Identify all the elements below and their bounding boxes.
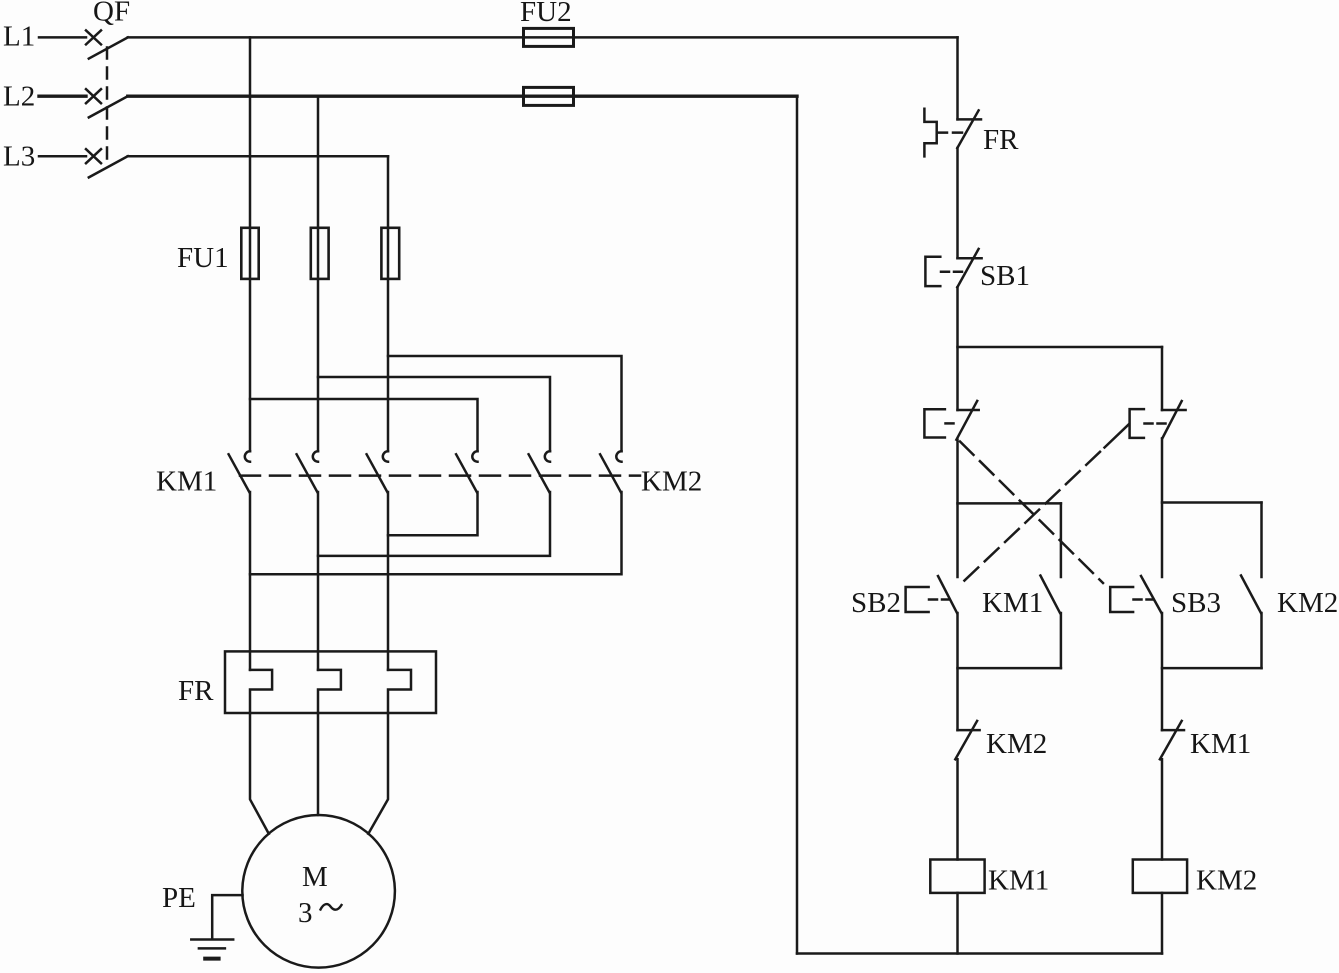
svg-text:3: 3 xyxy=(298,897,313,929)
wire L3 bus xyxy=(128,155,388,158)
breaker QF pole 2 xyxy=(86,89,128,117)
breaker QF linkage xyxy=(106,48,109,165)
fuse FU2 on L2 xyxy=(524,87,574,105)
wire main vertical seg 3 xyxy=(956,287,959,410)
fuse FU2 on L1 xyxy=(524,28,574,46)
svg-text:KM2: KM2 xyxy=(641,466,702,498)
svg-text:KM2: KM2 xyxy=(986,728,1047,760)
wire branch top xyxy=(958,346,1163,349)
fuse FU1 pole 1 xyxy=(241,228,258,279)
contactor KM2 main contact 2 xyxy=(529,451,550,492)
contactor KM1 main contact 1 xyxy=(229,451,250,492)
button SB2 break contact xyxy=(1130,401,1186,438)
svg-text:M: M xyxy=(302,861,328,893)
wire KM1 output U xyxy=(249,492,252,670)
wire main vertical seg 4 xyxy=(956,440,959,577)
fuse FU1 pole 3 xyxy=(381,228,399,279)
wire L2 lead-in xyxy=(39,94,86,97)
wire KM2 output 2 to phase V column xyxy=(318,492,550,556)
svg-text:KM1: KM1 xyxy=(982,587,1043,619)
wire phase U drop xyxy=(249,37,252,451)
coil KM1 xyxy=(930,860,984,893)
button SB2 make contact xyxy=(906,576,957,613)
svg-text:L1: L1 xyxy=(3,21,35,53)
ground PE xyxy=(191,940,233,959)
relay FR heater W xyxy=(388,670,411,713)
contact KM2 auxiliary xyxy=(1241,503,1262,669)
svg-text:KM1: KM1 xyxy=(988,865,1049,897)
svg-text:KM2: KM2 xyxy=(1196,865,1257,897)
wire phase W drop xyxy=(387,156,390,451)
contact KM1 break interlock xyxy=(1160,721,1184,759)
wire KM2 feed from phase W xyxy=(388,356,622,451)
wire KM2 output 3 to phase U column xyxy=(250,492,622,574)
button SB1 xyxy=(925,249,981,287)
svg-text:KM2: KM2 xyxy=(1277,587,1338,619)
relay FR box xyxy=(225,651,436,713)
contactor KM2 main contact 3 xyxy=(600,451,621,492)
contactor KM1 main contact 2 xyxy=(297,451,318,492)
relay FR heater U xyxy=(250,670,272,713)
svg-text:QF: QF xyxy=(93,0,130,28)
contact KM2 break interlock xyxy=(955,721,979,759)
relay FR heater V xyxy=(318,670,341,713)
wire PE xyxy=(212,895,242,938)
linkage SB2 contacts xyxy=(964,424,1129,581)
contactor KM1 main contact 3 xyxy=(367,451,388,492)
fuse FU1 pole 2 xyxy=(311,228,329,279)
svg-text:FU1: FU1 xyxy=(177,242,229,274)
wire coil KM2 bottom xyxy=(1161,893,1164,954)
wire L1 lead-in xyxy=(39,36,86,39)
wire coil KM1 bottom xyxy=(956,893,959,954)
wire reverse vertical mid xyxy=(1161,438,1164,577)
svg-text:FU2: FU2 xyxy=(520,0,572,28)
wire KM2 holding branch bottom xyxy=(1162,667,1262,670)
wire L3 lead-in xyxy=(39,155,86,158)
wire motor lead U xyxy=(250,713,269,834)
coil KM2 xyxy=(1133,860,1187,893)
relay FR break contact xyxy=(924,109,981,157)
wire KM2 output 1 to phase W column xyxy=(388,492,478,535)
wire KM1 output W xyxy=(387,492,390,670)
wire reverse vertical seg 6 xyxy=(1161,759,1164,859)
button SB3 break contact xyxy=(924,401,978,440)
wire motor lead V xyxy=(317,713,320,815)
wire motor lead W xyxy=(368,713,388,834)
svg-text:SB3: SB3 xyxy=(1171,587,1221,619)
wire L1 bus xyxy=(128,36,958,39)
svg-text:KM1: KM1 xyxy=(156,466,217,498)
wire main vertical seg 6 xyxy=(956,759,959,859)
motor M xyxy=(242,815,395,968)
wire main vertical seg 2 xyxy=(956,148,959,258)
wire phase V drop xyxy=(317,96,320,451)
svg-text:L3: L3 xyxy=(3,141,35,173)
svg-text:SB1: SB1 xyxy=(980,260,1030,292)
svg-text:PE: PE xyxy=(162,882,196,914)
svg-text:FR: FR xyxy=(178,675,214,707)
wire KM1 holding branch bottom xyxy=(958,667,1061,670)
svg-text:L2: L2 xyxy=(3,81,35,113)
breaker QF pole 3 xyxy=(86,149,128,177)
wire main vertical seg 5 xyxy=(956,613,959,730)
wire KM2 feed from phase U xyxy=(250,399,478,451)
wire L2 return vertical xyxy=(796,96,799,953)
svg-text:FR: FR xyxy=(983,124,1019,156)
svg-text:SB2: SB2 xyxy=(851,587,901,619)
breaker QF pole 1 xyxy=(86,30,128,58)
svg-text:KM1: KM1 xyxy=(1190,728,1251,760)
wire control live drop xyxy=(956,37,959,119)
wire KM2 feed from phase V xyxy=(318,377,550,451)
wire bottom rail xyxy=(797,952,1162,955)
wire reverse branch upper xyxy=(1161,347,1164,410)
linkage KM1-KM2 main contacts xyxy=(240,474,640,477)
wire KM1 holding branch top xyxy=(958,502,1061,505)
linkage SB3 contacts xyxy=(960,442,1103,584)
button SB3 make contact xyxy=(1110,576,1161,613)
wire KM2 holding branch top xyxy=(1162,501,1262,504)
contactor KM2 main contact 1 xyxy=(456,451,477,492)
wire L2 bus xyxy=(128,94,797,97)
contact KM1 auxiliary xyxy=(1040,503,1061,668)
wire reverse vertical seg 5 xyxy=(1161,613,1164,730)
wire KM1 output V xyxy=(317,492,320,670)
